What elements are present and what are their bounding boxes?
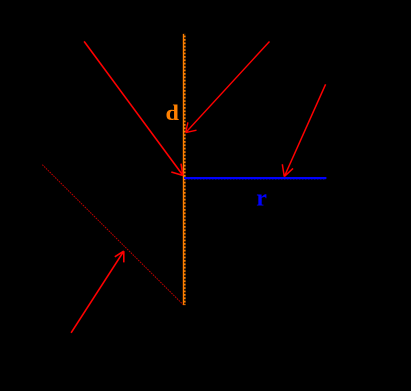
wire: incoming red ray from upper left: [84, 41, 183, 175]
wire: red arrow lower left pointing at dark red line: [71, 251, 124, 333]
wire: blue horizontal line r: [184, 178, 326, 179]
wire: dashed orange vertical axis line: [183, 34, 186, 305]
svg-text:r: r: [256, 185, 267, 211]
svg-text:d: d: [166, 101, 180, 126]
wire: dark red diagonal line lower left: [42, 165, 183, 305]
wire: red ray from upper right pointing at d: [186, 42, 270, 133]
wire: red arrow on right pointing at blue line: [282, 84, 325, 176]
